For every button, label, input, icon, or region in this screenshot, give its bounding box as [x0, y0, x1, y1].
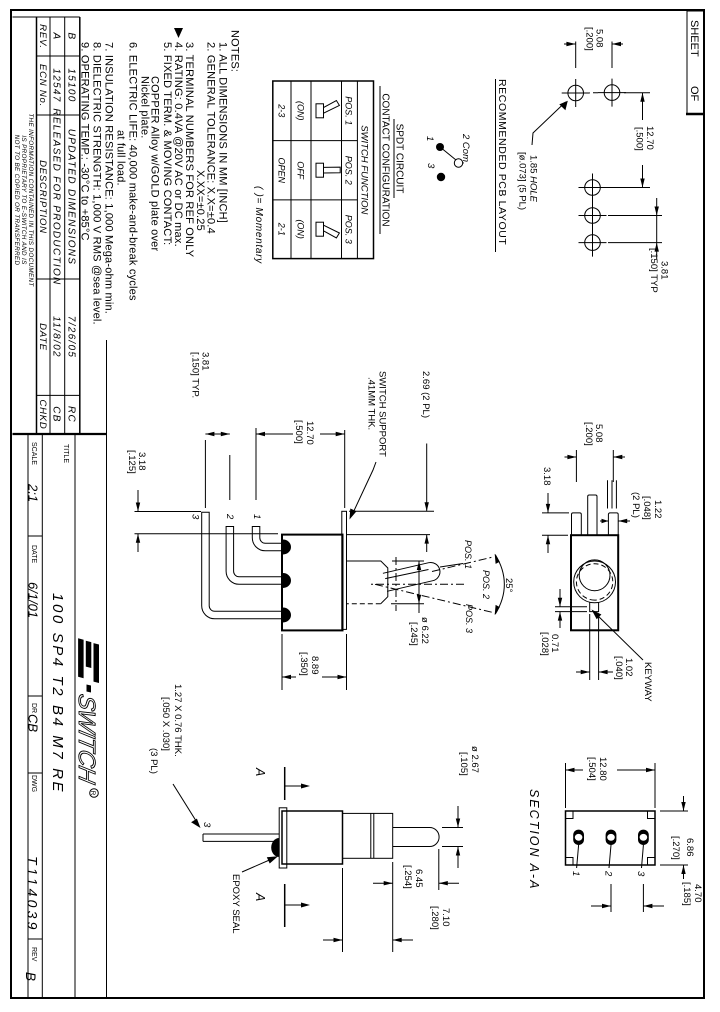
- svg-text:UPDATED DIMENSIONS: UPDATED DIMENSIONS: [66, 129, 77, 266]
- svg-text:POS. 2: POS. 2: [481, 570, 491, 599]
- table titles: [380, 86, 405, 234]
- epoxy seal blob: [271, 838, 279, 857]
- end view body: [571, 535, 618, 630]
- note 4 marker: [174, 28, 183, 38]
- 25 deg arc: [495, 554, 514, 615]
- svg-text:ø 2.67: ø 2.67: [469, 746, 480, 773]
- toggle lever: [383, 562, 440, 591]
- svg-text:8.89: 8.89: [309, 656, 320, 675]
- svg-text:SWITCH: SWITCH: [73, 692, 100, 787]
- svg-text:SHEET: SHEET: [688, 20, 700, 57]
- leader 1.85 HOLE: [517, 101, 568, 210]
- svg-text:100 SP4 T2 B4 M7 RE: 100 SP4 T2 B4 M7 RE: [49, 593, 66, 794]
- hole A1: [562, 79, 590, 107]
- revision table rows: [51, 32, 77, 424]
- extension line pin tips: [135, 511, 202, 513]
- svg-text:ø 6.22: ø 6.22: [419, 617, 430, 644]
- terminal 1 oval: [573, 830, 584, 845]
- revision table header: [37, 24, 48, 429]
- svg-text:[.150] TYP.: [.150] TYP.: [190, 352, 201, 398]
- svg-text:REV: REV: [30, 947, 37, 962]
- svg-text:6.45: 6.45: [413, 869, 424, 888]
- body top extension: [342, 868, 344, 952]
- terminal size label: [148, 684, 201, 828]
- svg-text:[.040]: [.040]: [613, 656, 624, 680]
- svg-text:3: 3: [190, 514, 201, 520]
- pin number labels: [190, 513, 263, 520]
- svg-text:at full load.: at full load.: [115, 130, 127, 186]
- svg-text:1: 1: [251, 514, 262, 519]
- svg-text:3.81: 3.81: [659, 261, 670, 280]
- svg-text:Nickel plate.: Nickel plate.: [139, 76, 151, 139]
- svg-text:[ø.073] (5 PL): [ø.073] (5 PL): [517, 152, 528, 210]
- svg-text:CONTACT CONFIGURATION: CONTACT CONFIGURATION: [380, 93, 391, 226]
- epoxy seals at pins: [282, 540, 291, 623]
- svg-text:[.270]: [.270]: [670, 836, 681, 860]
- dim 5.08 end view: [565, 422, 626, 482]
- dim 4.70 [.185]: [591, 882, 703, 912]
- svg-text:DESCRIPTION: DESCRIPTION: [37, 160, 48, 234]
- svg-text:SWITCH SUPPORT: SWITCH SUPPORT: [377, 371, 388, 457]
- svg-text:5. FIXED TERM. & MOVING CONTA: 5. FIXED TERM. & MOVING CONTACT:: [161, 42, 173, 245]
- SPDT circuit sketch: [424, 133, 471, 181]
- svg-text:SWITCH FUNCTION: SWITCH FUNCTION: [359, 125, 370, 214]
- svg-text:DWG: DWG: [30, 775, 37, 792]
- svg-text:[.504]: [.504]: [586, 757, 597, 781]
- side body: [282, 811, 343, 864]
- center tongue: [588, 495, 597, 535]
- sheet box: [686, 11, 704, 114]
- dim 8.89 [.350]: [282, 634, 347, 690]
- dim 12.70 [.500] main: [256, 420, 345, 445]
- svg-text:2: 2: [224, 513, 235, 520]
- dr cell: [26, 703, 41, 732]
- svg-text:KEYWAY: KEYWAY: [642, 662, 653, 702]
- svg-text:POS. 3: POS. 3: [464, 604, 474, 633]
- leader switch support: [350, 371, 388, 520]
- dim 3.18 end view: [541, 467, 569, 553]
- dim 1.22 [.048] (2 PL): [600, 492, 663, 523]
- side bushing: [343, 813, 393, 858]
- svg-text:2:1: 2:1: [26, 483, 41, 502]
- svg-text:.41MM THK.: .41MM THK.: [366, 377, 377, 430]
- svg-text:8. DIELECTRIC STRENGTH: 1,000: 8. DIELECTRIC STRENGTH: 1,000 V RMS @sea…: [91, 42, 103, 325]
- svg-text:[.028]: [.028]: [539, 632, 550, 656]
- section body: [566, 811, 656, 865]
- svg-text:7. INSULATION RESISTANCE: 1,0: 7. INSULATION RESISTANCE: 1,000 Mega-ohm…: [103, 42, 115, 314]
- svg-text:T114039: T114039: [25, 856, 41, 933]
- svg-text:B: B: [23, 972, 38, 981]
- bushing circle outer: [574, 561, 616, 603]
- bushing top extension: [392, 862, 394, 952]
- rev cell: [23, 947, 38, 981]
- dim 5.08 [.200] PCB: [564, 27, 623, 68]
- svg-text:[.500]: [.500]: [634, 127, 645, 151]
- common contact: [454, 159, 462, 167]
- dim 2.69 (2 PL): [346, 371, 434, 552]
- svg-text:[.048]: [.048]: [641, 496, 652, 520]
- svg-text:1. ALL DIMENSIONS IN MM [INCH: 1. ALL DIMENSIONS IN MM [INCH]: [217, 42, 229, 223]
- centerline A1-A2: [590, 92, 598, 94]
- svg-text:IS PROPRIETARY TO E-SWITCH AND: IS PROPRIETARY TO E-SWITCH AND IS: [20, 135, 27, 265]
- svg-text:[.125]: [.125]: [126, 450, 137, 474]
- lever end circle: [579, 560, 610, 591]
- svg-text:R: R: [89, 791, 96, 796]
- dim 3.81 [.150] TYP PCB: [608, 198, 670, 293]
- contact 3: [437, 173, 445, 181]
- svg-text:SPDT CIRCUIT: SPDT CIRCUIT: [394, 124, 405, 194]
- pos3 centerline: [375, 584, 493, 612]
- scale cell: [26, 442, 41, 502]
- svg-text:3: 3: [635, 871, 646, 877]
- svg-text:B: B: [66, 33, 77, 41]
- svg-text:2-1: 2-1: [277, 222, 287, 236]
- svg-text:11/8/02: 11/8/02: [51, 316, 62, 358]
- svg-text:A: A: [51, 32, 62, 41]
- momentary note: [253, 186, 264, 264]
- hole B1: [579, 174, 607, 202]
- dim 1.02 [.040] keyway: [576, 614, 634, 680]
- svg-text:[.245]: [.245]: [408, 622, 419, 646]
- pos labels: [463, 540, 491, 633]
- lower prong: [572, 513, 582, 535]
- E-SWITCH logo: [73, 638, 100, 797]
- svg-text:2: 2: [603, 870, 614, 877]
- svg-text:A: A: [253, 892, 267, 901]
- svg-text:[.185]: [.185]: [681, 882, 692, 906]
- centerline vertical pos2: [368, 583, 464, 585]
- hole B2: [579, 202, 607, 230]
- leader pos1: [440, 564, 463, 568]
- svg-text:CHKD: CHKD: [37, 399, 48, 429]
- dim 6.86 [.270]: [660, 796, 695, 879]
- contact 1: [436, 143, 444, 151]
- svg-text:1: 1: [424, 136, 435, 141]
- svg-text:1.27 X 0.76 THK.: 1.27 X 0.76 THK.: [172, 684, 183, 757]
- svg-text:A: A: [253, 767, 267, 776]
- pos1 axis centerline: [432, 557, 493, 572]
- upper prong: [608, 513, 618, 535]
- svg-text:7/26/05: 7/26/05: [66, 316, 77, 358]
- dim o6.22 [.245]: [391, 561, 430, 646]
- svg-text:NOT TO BE COPIED OR TRANSFERRE: NOT TO BE COPIED OR TRANSFERRED: [13, 135, 20, 266]
- svg-text:POS. 1: POS. 1: [344, 96, 354, 125]
- svg-text:15100: 15100: [66, 68, 77, 102]
- svg-text:POS. 1: POS. 1: [463, 540, 473, 569]
- dim 3.18 [.125] main: [126, 450, 147, 552]
- svg-text:POS. 3: POS. 3: [344, 215, 354, 244]
- svg-text:(3 PL): (3 PL): [148, 748, 159, 774]
- pin 2: [226, 527, 282, 585]
- svg-text:(2 PL): (2 PL): [630, 492, 641, 518]
- svg-text:25°: 25°: [503, 578, 514, 593]
- pin edges top view: [608, 480, 617, 508]
- svg-text:12.80: 12.80: [597, 757, 608, 781]
- svg-text:RC: RC: [66, 406, 77, 423]
- dim 6.45 [.254]: [373, 849, 459, 890]
- keyway label and leader: [592, 610, 654, 703]
- revision table: [13, 17, 80, 434]
- date cell: [26, 545, 41, 618]
- svg-text:12547: 12547: [51, 68, 62, 102]
- terminal 3 oval: [638, 830, 649, 845]
- proprietary note: [13, 113, 34, 287]
- svg-text:RELEASED FOR PRODUCTION: RELEASED FOR PRODUCTION: [51, 108, 62, 285]
- svg-text:( )= Momentary: ( )= Momentary: [253, 186, 264, 264]
- svg-text:TITLE: TITLE: [62, 444, 69, 463]
- svg-text:4.70: 4.70: [692, 884, 703, 903]
- svg-text:1: 1: [570, 871, 581, 876]
- dim o2.67 [.105] lever dia: [442, 746, 480, 868]
- side lever: [393, 828, 439, 847]
- svg-text:ECN No.: ECN No.: [37, 64, 48, 107]
- toggle icon pos1: [316, 101, 339, 118]
- svg-text:3: 3: [425, 163, 436, 169]
- svg-text:RECOMMENDED PCB LAYOUT: RECOMMENDED PCB LAYOUT: [496, 79, 508, 245]
- svg-text:(ON): (ON): [296, 101, 306, 121]
- svg-text:[.150] TYP: [.150] TYP: [648, 248, 659, 293]
- caption RECOMMENDED PCB LAYOUT: [496, 79, 509, 252]
- section line A-A: [253, 767, 310, 927]
- svg-text:CB: CB: [51, 406, 62, 423]
- pin 1: [252, 527, 282, 551]
- svg-text:OPEN: OPEN: [277, 157, 287, 183]
- bushing: [347, 561, 388, 604]
- svg-text:6/1/01: 6/1/01: [26, 582, 41, 618]
- svg-text:POS. 2: POS. 2: [344, 156, 354, 185]
- toggle icon pos2: [316, 163, 340, 177]
- svg-text:[.200]: [.200]: [584, 27, 595, 51]
- svg-text:DR: DR: [30, 703, 37, 713]
- svg-text:DATE: DATE: [30, 545, 37, 563]
- dim 3.81 [.150] TYP. main: [190, 352, 230, 436]
- svg-text:EPOXY SEAL: EPOXY SEAL: [230, 874, 241, 934]
- svg-text:OF: OF: [688, 86, 700, 102]
- pin 3: [202, 512, 282, 619]
- svg-text:1.85 HOLE: 1.85 HOLE: [528, 155, 539, 203]
- terminal 2 oval: [606, 830, 617, 845]
- centerline horizontal bushing: [395, 557, 397, 611]
- svg-text:SECTION A-A: SECTION A-A: [527, 789, 541, 890]
- dim 12.80 [.504]: [566, 757, 656, 808]
- dim 12.70 [.500] PCB: [602, 93, 655, 188]
- extension line pin3 center: [204, 440, 206, 508]
- svg-text:3.18: 3.18: [541, 467, 552, 486]
- switch body: [282, 535, 343, 631]
- svg-text:[.500]: [.500]: [293, 420, 304, 444]
- side pin 3: [201, 822, 279, 841]
- extension line pin2 center: [229, 455, 231, 500]
- hole B3: [579, 229, 607, 257]
- extension line plate top: [344, 430, 346, 508]
- svg-text:OFF: OFF: [296, 161, 306, 179]
- svg-text:DATE: DATE: [37, 323, 48, 351]
- dim 7.10 [.280]: [323, 906, 451, 942]
- svg-text:[.254]: [.254]: [402, 865, 413, 889]
- base strip: [279, 808, 287, 868]
- svg-text:[.050 X .030]: [.050 X .030]: [160, 697, 171, 751]
- svg-text:2-3: 2-3: [277, 103, 287, 117]
- svg-text:[.200]: [.200]: [583, 422, 594, 446]
- epoxy seal label: [230, 856, 278, 933]
- svg-text:12.70: 12.70: [644, 126, 655, 150]
- keyway notch: [590, 602, 599, 611]
- svg-text:SCALE: SCALE: [30, 442, 37, 465]
- svg-text:REV.: REV.: [37, 24, 48, 49]
- PCB layout holes: [562, 79, 626, 257]
- svg-text:NOTES:: NOTES:: [229, 30, 241, 72]
- hole A2: [598, 79, 626, 107]
- extension line body left edge: [135, 533, 279, 535]
- svg-text:[.350]: [.350]: [298, 652, 309, 676]
- svg-text:3: 3: [201, 822, 212, 828]
- svg-text:2.69 (2 PL): 2.69 (2 PL): [420, 371, 431, 418]
- extension line pin1 center: [255, 428, 257, 500]
- svg-text:1.22: 1.22: [652, 500, 663, 519]
- svg-text:[.105]: [.105]: [458, 752, 469, 776]
- switch arm wire: [443, 149, 456, 160]
- switch support plate: [342, 511, 347, 629]
- svg-text:[.280]: [.280]: [429, 906, 440, 930]
- terminal labels: [570, 845, 646, 877]
- hidden thread circle: [576, 564, 612, 600]
- svg-text:6.86: 6.86: [684, 838, 695, 857]
- notes: [79, 30, 241, 325]
- title block frame: [13, 340, 107, 998]
- svg-text:6. ELECTRIC LIFE: 40,000 make: 6. ELECTRIC LIFE: 40,000 make-and-break …: [127, 42, 139, 301]
- svg-text:12.70: 12.70: [304, 421, 315, 445]
- svg-text:(ON): (ON): [296, 219, 306, 239]
- contact configuration table: [273, 81, 374, 259]
- svg-text:THE INFORMATION CONTAINED IN T: THE INFORMATION CONTAINED IN THIS DOCUME…: [27, 113, 34, 287]
- toggle icon pos3: [316, 222, 339, 238]
- dim 0.71 [.028] keyway depth: [539, 589, 587, 656]
- svg-text:CB: CB: [26, 714, 41, 732]
- svg-text:7.10: 7.10: [440, 908, 451, 927]
- dwg cell: [30, 775, 37, 792]
